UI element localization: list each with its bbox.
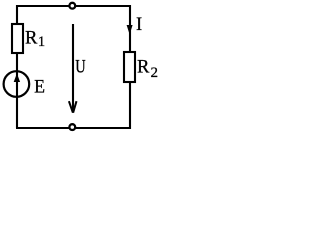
- svg-text:R: R: [25, 29, 38, 49]
- wire: bottom horizontal: [16, 127, 131, 129]
- svg-text:2: 2: [151, 65, 159, 81]
- wire: right branch, top wire to R2: [129, 5, 131, 53]
- wire: R1 to source E: [16, 52, 18, 72]
- wire: top horizontal: [16, 5, 131, 7]
- svg-text:R: R: [137, 58, 150, 78]
- resistor R1: [12, 24, 23, 53]
- resistor R2: [124, 52, 135, 82]
- svg-text:U: U: [75, 58, 85, 78]
- svg-text:I: I: [136, 15, 142, 35]
- source E circle: [4, 71, 30, 97]
- svg-text:E: E: [34, 78, 45, 98]
- arrow U barbs: [69, 101, 73, 113]
- terminal: top node circle: [69, 3, 75, 9]
- arrowhead of current I (points down): [127, 25, 133, 35]
- arrow U (voltage, points down): shaft: [72, 24, 74, 113]
- wire: left branch, top wire to R1: [16, 5, 18, 25]
- wire: R2 to bottom wire: [129, 81, 131, 129]
- svg-text:1: 1: [38, 34, 45, 50]
- terminal: bottom node circle: [69, 124, 75, 130]
- arrowhead of source E (points up): [14, 73, 20, 82]
- wire: through source E down to bottom wire: [16, 71, 18, 128]
